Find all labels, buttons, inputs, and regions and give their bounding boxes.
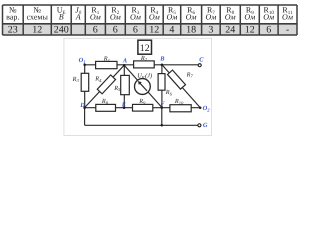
svg-text:Ом: Ом — [282, 13, 293, 22]
svg-text:O2: O2 — [203, 105, 211, 112]
svg-text:R2: R2 — [140, 55, 148, 62]
svg-text:R10: R10 — [174, 98, 184, 105]
resistor R10 — [170, 105, 191, 112]
svg-text:Ом: Ом — [149, 13, 160, 22]
terminal C (open) — [198, 64, 201, 67]
svg-text:UЕ(J): UЕ(J) — [137, 73, 152, 80]
svg-text:G: G — [203, 122, 208, 129]
junction F-bus — [161, 124, 164, 127]
svg-text:6: 6 — [113, 24, 118, 35]
svg-text:R7: R7 — [186, 71, 194, 78]
svg-text:Ом: Ом — [225, 13, 236, 22]
svg-text:6: 6 — [266, 24, 271, 35]
svg-text:18: 18 — [186, 24, 196, 35]
svg-text:А: А — [75, 13, 81, 22]
svg-text:240: 240 — [54, 24, 69, 35]
svg-text:12: 12 — [32, 24, 42, 35]
svg-text:3: 3 — [208, 24, 213, 35]
svg-text:R8: R8 — [101, 98, 109, 105]
node name labels (blue) — [79, 55, 211, 128]
value row grey background — [3, 24, 298, 35]
figure frame — [64, 38, 212, 135]
wire D down to bus — [84, 108, 86, 126]
wire diagonal A to F (source branch) — [124, 65, 162, 107]
svg-text:Ом: Ом — [166, 13, 177, 22]
svg-text:6: 6 — [93, 24, 98, 35]
svg-text:R9: R9 — [138, 98, 146, 105]
svg-text:F: F — [160, 101, 165, 108]
svg-text:-: - — [286, 24, 289, 35]
data table — [3, 5, 298, 35]
wire diagonal B to O2 — [162, 65, 200, 108]
svg-text:R4: R4 — [94, 76, 102, 83]
table grid — [3, 5, 298, 35]
wire top row O1-A-B-C — [85, 64, 198, 66]
svg-text:R5: R5 — [113, 85, 121, 92]
svg-text:12: 12 — [140, 43, 150, 54]
resistor R4 (diagonal) — [97, 75, 115, 94]
resistor R9 — [133, 104, 153, 111]
svg-text:вар.: вар. — [6, 13, 19, 22]
box 12 (schematic number) — [138, 40, 152, 54]
svg-text:Ом: Ом — [110, 13, 121, 22]
resistor R8 — [96, 104, 116, 111]
svg-text:Ом: Ом — [205, 13, 216, 22]
svg-text:23: 23 — [8, 24, 18, 35]
source arrow — [140, 83, 147, 91]
resistor R3 — [81, 73, 89, 91]
wire A to R5 to E — [123, 65, 125, 108]
svg-text:Ом: Ом — [186, 13, 197, 22]
junction node O2 — [199, 107, 202, 110]
svg-text:D: D — [79, 102, 85, 109]
svg-text:12: 12 — [245, 24, 255, 35]
wire O1 to R3 to D — [84, 65, 86, 108]
svg-text:Ом: Ом — [263, 13, 274, 22]
component labels — [72, 55, 194, 106]
resistor R6 — [158, 74, 165, 91]
svg-text:4: 4 — [169, 24, 174, 35]
source U_E(J) circle — [135, 79, 151, 95]
svg-text:Ом: Ом — [130, 13, 141, 22]
svg-text:Ом: Ом — [244, 13, 255, 22]
svg-text:схемы: схемы — [27, 13, 49, 22]
svg-text:6: 6 — [133, 24, 138, 35]
svg-text:B: B — [159, 55, 165, 62]
svg-text:R3: R3 — [72, 76, 80, 83]
svg-text:В: В — [59, 13, 64, 22]
resistor R5 — [121, 75, 130, 94]
junction node A — [123, 64, 126, 67]
wire diagonal D to A — [85, 65, 125, 107]
svg-text:E: E — [121, 102, 126, 109]
header row texts — [6, 6, 293, 22]
wire bottom bus to G — [85, 124, 198, 126]
resistor R7 (diagonal) — [167, 70, 185, 89]
junction node F — [161, 106, 164, 109]
wire B to R6 to F — [161, 65, 163, 108]
svg-text:R1: R1 — [103, 56, 110, 63]
junction node B — [161, 63, 164, 66]
junction node O1 — [83, 64, 86, 67]
junction node E — [123, 106, 126, 109]
svg-text:R6: R6 — [165, 89, 173, 96]
terminal G (open) — [198, 124, 201, 127]
value row texts — [8, 24, 289, 35]
schematic wires — [85, 65, 201, 126]
resistor R2 — [134, 61, 155, 68]
svg-text:O1: O1 — [79, 57, 86, 64]
svg-text:C: C — [199, 57, 204, 64]
svg-text:24: 24 — [225, 24, 235, 35]
resistor R1 — [96, 61, 117, 68]
wire F down to bus — [161, 108, 163, 126]
svg-text:A: A — [122, 58, 127, 65]
wire bottom row D-E-F-O2 — [85, 107, 201, 109]
svg-text:12: 12 — [149, 24, 159, 35]
junction node D — [83, 106, 86, 109]
svg-text:Ом: Ом — [90, 13, 101, 22]
